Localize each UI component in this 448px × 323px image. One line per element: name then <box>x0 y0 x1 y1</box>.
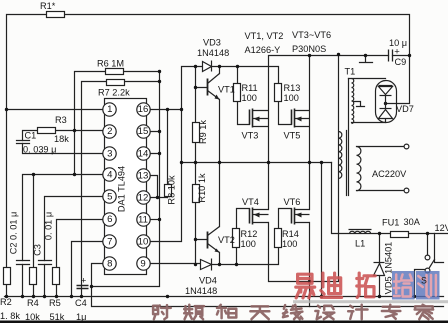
svg-text:FU1: FU1 <box>382 218 399 228</box>
svg-text:VT5: VT5 <box>284 131 301 141</box>
svg-text:R1*: R1* <box>40 1 56 11</box>
svg-text:12: 12 <box>138 193 149 204</box>
svg-text:5: 5 <box>107 192 112 203</box>
svg-text:13: 13 <box>138 171 149 182</box>
svg-text:3: 3 <box>107 149 112 160</box>
svg-text:A1266-Y: A1266-Y <box>245 45 281 55</box>
svg-text:P30N0S: P30N0S <box>292 44 326 54</box>
svg-text:10: 10 <box>138 237 149 248</box>
svg-text:30A: 30A <box>404 217 421 227</box>
svg-text:R4: R4 <box>27 298 39 308</box>
svg-text:9: 9 <box>140 259 145 270</box>
svg-text:R3: R3 <box>55 115 67 125</box>
svg-text:0. 039 μ: 0. 039 μ <box>23 145 56 155</box>
svg-text:VT1, VT2: VT1, VT2 <box>245 31 284 41</box>
svg-text:C3: C3 <box>33 244 43 256</box>
svg-text:C4: C4 <box>75 298 87 308</box>
svg-text:0. 01 μ: 0. 01 μ <box>44 212 54 240</box>
svg-text:4: 4 <box>107 170 113 181</box>
svg-text:R8 10k: R8 10k <box>167 175 177 205</box>
svg-text:T1: T1 <box>345 67 356 77</box>
svg-text:7: 7 <box>107 237 112 248</box>
svg-text:+: + <box>394 47 400 58</box>
svg-text:1: 1 <box>107 104 112 115</box>
svg-text:R14: R14 <box>282 229 299 239</box>
svg-text:R9 1k: R9 1k <box>198 120 208 144</box>
svg-text:1N4148: 1N4148 <box>185 286 217 296</box>
svg-text:R12: R12 <box>241 229 258 239</box>
svg-text:R7 2.2k: R7 2.2k <box>98 88 130 98</box>
svg-text:VD4: VD4 <box>199 276 217 286</box>
svg-text:VD7: VD7 <box>396 104 414 114</box>
svg-text:VT6: VT6 <box>284 197 301 207</box>
svg-text:R13: R13 <box>284 83 301 93</box>
svg-text:100: 100 <box>282 239 297 249</box>
svg-text:10 μ: 10 μ <box>389 38 407 48</box>
svg-text:R10 1k: R10 1k <box>197 173 207 203</box>
svg-text:15: 15 <box>138 126 149 137</box>
svg-text:S: S <box>421 276 427 286</box>
svg-text:L1: L1 <box>355 239 365 249</box>
svg-text:VT3~VT6: VT3~VT6 <box>292 30 331 40</box>
svg-text:2: 2 <box>107 126 112 137</box>
svg-text:VT4: VT4 <box>242 197 259 207</box>
svg-text:14: 14 <box>138 149 149 160</box>
svg-text:100: 100 <box>241 239 256 249</box>
svg-text:16: 16 <box>138 104 149 115</box>
svg-text:1. 8k: 1. 8k <box>0 311 20 321</box>
svg-text:R11: R11 <box>242 83 258 93</box>
svg-text:12V: 12V <box>435 223 448 233</box>
svg-text:R2: R2 <box>0 297 12 307</box>
svg-text:C9: C9 <box>395 57 407 67</box>
svg-text:R5: R5 <box>49 298 61 308</box>
svg-text:VT3: VT3 <box>242 131 259 141</box>
svg-text:VT1: VT1 <box>218 85 235 95</box>
svg-text:+: + <box>81 276 87 287</box>
svg-text:6: 6 <box>107 214 112 225</box>
svg-text:18k: 18k <box>54 134 69 144</box>
svg-text:100: 100 <box>242 93 257 103</box>
svg-text:1N4148: 1N4148 <box>197 48 229 58</box>
svg-text:R6 1M: R6 1M <box>97 59 124 69</box>
svg-text:DA1 TL494: DA1 TL494 <box>117 166 127 212</box>
svg-text:C2 0. 01 μ: C2 0. 01 μ <box>9 212 19 255</box>
svg-text:VT2: VT2 <box>218 235 235 245</box>
svg-text:100: 100 <box>284 93 299 103</box>
svg-text:AC220V: AC220V <box>372 169 407 179</box>
svg-text:C1: C1 <box>25 131 37 141</box>
svg-text:8: 8 <box>107 259 112 270</box>
svg-text:11: 11 <box>138 215 148 226</box>
svg-text:VD3: VD3 <box>203 38 221 48</box>
